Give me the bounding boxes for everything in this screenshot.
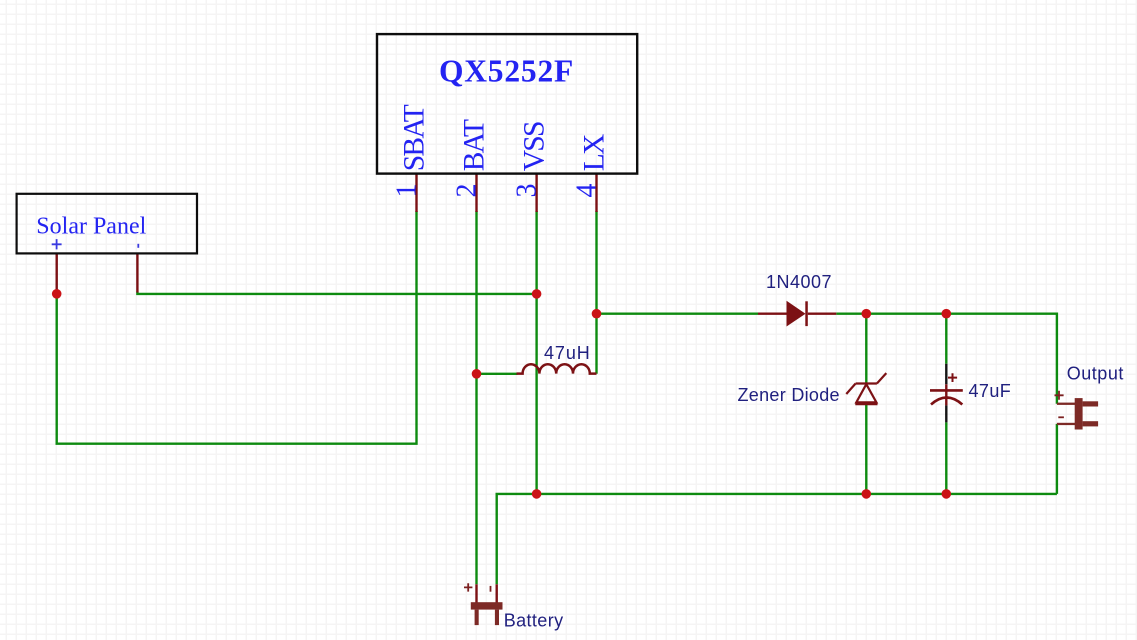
svg-text:47uH: 47uH bbox=[544, 343, 591, 363]
svg-text:Battery: Battery bbox=[504, 610, 564, 630]
svg-text:Output: Output bbox=[1067, 363, 1124, 383]
svg-text:QX5252F: QX5252F bbox=[439, 54, 574, 89]
svg-text:1N4007: 1N4007 bbox=[766, 272, 832, 292]
svg-text:SBAT: SBAT bbox=[398, 104, 430, 171]
svg-text:3: 3 bbox=[512, 184, 543, 198]
svg-text:Solar Panel: Solar Panel bbox=[36, 214, 146, 240]
svg-text:VSS: VSS bbox=[518, 122, 550, 171]
svg-text:47uF: 47uF bbox=[969, 381, 1012, 401]
svg-text:2: 2 bbox=[451, 184, 482, 198]
svg-text:1: 1 bbox=[391, 184, 422, 198]
svg-text:BAT: BAT bbox=[458, 119, 490, 171]
svg-text:4: 4 bbox=[571, 184, 602, 198]
svg-text:Zener Diode: Zener Diode bbox=[738, 385, 840, 405]
svg-text:LX: LX bbox=[578, 134, 610, 171]
